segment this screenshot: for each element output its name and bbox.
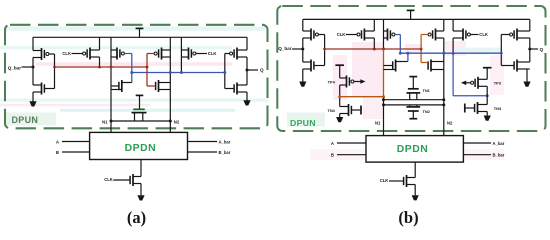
wire TP4/TN4 feed vertical (b) [339,85,341,117]
wire node N2 vertical (a) [169,37,171,132]
terminal T-bar above TP4 (b) [335,65,344,78]
ground under right inverter (b) [523,82,530,87]
svg-text:TN4: TN4 [327,108,335,113]
MOS capacitor TN1 (b) [406,89,420,100]
junction upper link right (b) [442,98,445,101]
arrow terminal at TP4 gate (b) [354,79,366,84]
VDD supply terminal (b) [407,10,415,19]
terminal T-bar below TN2 (b) [409,111,417,119]
junction N1-red (b) [382,48,385,51]
transistor N3 pass NMOS left (a) [111,80,132,92]
transistor P4 keeper PMOS right (a) [147,48,170,60]
terminal T-bar above TN1 (b) [409,77,417,88]
junction N2 link (a) [169,120,172,123]
svg-text:CLK: CLK [337,32,346,37]
wire input B (b) [337,154,366,156]
wire Q output stub (b) [530,48,538,50]
svg-text:DPDN: DPDN [397,144,428,155]
junction TN8 drain blue (b) [406,52,409,55]
wire input A (a) [62,141,90,143]
svg-text:CLK: CLK [104,177,113,182]
svg-text:CLK: CLK [62,51,71,56]
junction Q_bar (b) [301,48,304,51]
transistor TP6 keeper PMOS right (b) [421,29,444,41]
junction orange N1 (b) [382,95,385,98]
transistor TP5 keeper PMOS left (b) [384,29,401,41]
wire DPDN to foot transistor (a) [140,160,142,196]
transistor TN7 right inverter NMOS (b) [501,60,530,72]
VDD rail (a) [33,36,247,38]
transistor N7 clock foot NMOS (a) [130,174,141,186]
svg-text:N2: N2 [174,120,180,125]
junction lower link right (b) [442,103,445,106]
junction blue-keeper-left gate (a) [130,71,133,74]
subcircuit (b) DPUN dashed boundary box [277,6,545,131]
wire red gate vertical keeper-right (a) [146,54,148,87]
arrow terminal at TP3 gate (b) [461,81,471,86]
junction precharge-left red (b) [373,48,376,51]
junction blue keeper-left gate (b) [399,52,402,55]
svg-text:CLK: CLK [479,32,488,37]
svg-text:TP3: TP3 [494,81,502,86]
terminal bar at TN3 gate (b) [464,104,466,113]
transistor TP1 left inverter PMOS (b) [303,29,325,41]
transistor P3 keeper PMOS left (a) [111,48,132,60]
junction red left inverter gates (b) [323,48,326,51]
wire blue link to TP3/TN3 branch (b) [453,95,487,97]
junction Q (a) [246,69,249,72]
junction N2-blue (a) [169,71,172,74]
wire CLK foot gate lead (b) [389,180,404,182]
svg-text:TN2: TN2 [423,109,431,114]
svg-text:A: A [56,139,59,144]
wire input B (a) [62,151,90,153]
ground under TP3/TN3 branch (b) [484,116,491,121]
junction blue to right inverter gates (a) [223,71,226,74]
terminal T-bar above TP3 (b) [483,68,492,80]
svg-text:B: B [331,153,334,158]
wire input A (b) [337,142,366,144]
svg-text:(a): (a) [127,208,146,227]
wire right inverter feed vertical (b) [527,19,530,81]
svg-text:A_bar: A_bar [219,139,231,144]
wire red node R (a) [55,66,148,68]
transistor TN4 (b) [340,104,361,116]
DPDN block box (a) [90,132,188,159]
wire keeper-left gate blue vertical (b) [399,35,401,54]
ground under left inverter (b) [299,82,306,87]
junction N2-blue (b) [442,52,445,55]
wire blue gate vertical keeper-left (a) [131,54,133,83]
wire output A_bar (b) [463,142,491,144]
wire CLK gate lead (b left) [346,34,358,36]
svg-text:N2: N2 [447,121,453,126]
svg-text:(b): (b) [398,208,418,227]
MOS capacitor C1 (a) [132,109,147,121]
svg-text:Q_bar: Q_bar [278,46,291,51]
junction Q_bar (a) [32,66,35,69]
wire Q_bar feed vertical (a left inverter source/drain rail) [32,37,34,101]
transistor TP3 (b) [471,77,488,89]
transistor N4 pass NMOS right (a) [156,80,171,92]
capacitor terminal T-bar (a) [136,95,144,108]
svg-text:TP4: TP4 [328,79,336,84]
ground under TP4/TN4 branch (b) [336,117,343,122]
wire N1-N2 upper link (b) [384,99,444,101]
junction Q (b) [528,48,531,51]
wire N4 gate lead from red (a) [147,85,156,87]
wire orange link red-branch (b) [340,96,384,98]
svg-text:N1: N1 [102,120,108,125]
svg-text:TN3: TN3 [494,106,502,111]
svg-text:B: B [56,150,59,155]
MOS capacitor TN2 (b) [406,105,420,111]
transistor TP7 precharge PMOS CLK right (b) [453,29,478,41]
svg-text:B_bar: B_bar [219,150,231,155]
svg-text:DPUN: DPUN [290,118,316,128]
wire N1-N2 lower link (b) [384,104,444,106]
transistor TP2 precharge PMOS CLK left (b) [357,29,374,41]
wire TN8 drain blue vertical (b) [407,53,409,61]
wire right inverter feed vertical (a) [246,37,248,100]
wire precharge-left drain/source vertical (a) [99,37,101,67]
DPDN block box (b) [366,136,463,163]
transistor TN9 pass NMOS right (b) [428,60,444,72]
wire node N1 vertical upper (b) [383,19,385,49]
junction upper link left (b) [382,98,385,101]
ground under foot transistor (b) [412,195,419,200]
wire Q_bar stub (a) [22,66,34,68]
wire precharge-right vertical upper (b) [452,19,454,53]
transistor TN3 (b) [466,102,488,114]
wire node N2 vertical (b) [443,19,445,135]
transistor TN8 pass NMOS left (b) [384,60,408,72]
junction N1 link (a) [110,120,113,123]
svg-text:DPDN: DPDN [125,143,156,154]
transistor P6 right inverter PMOS (a) [225,48,247,60]
wire keeper-right gate orange vertical (b) [420,35,422,63]
junction red end keeper-right gate (b) [420,48,423,51]
svg-text:A: A [331,141,334,146]
svg-text:TN1: TN1 [423,88,431,93]
wire N1-N2 horizontal link (a) [111,120,170,122]
transistor TP4 (b) [340,76,354,88]
wire blue node S (b) [400,52,501,54]
svg-text:DPUN: DPUN [12,115,39,125]
wire output B_bar (b) [463,154,491,156]
subcircuit (a) DPUN dashed boundary box [5,25,268,129]
junction lower link left (b) [382,103,385,106]
svg-text:Q: Q [540,47,544,52]
junction red keeper-right (a) [146,66,149,69]
wire blue node S (a) [132,72,225,74]
junction precharge-right to blue (a) [180,71,183,74]
ground under right inverter (a) [243,100,250,105]
junction blue to branch feed (b) [486,94,489,97]
junction blue right inverter gates (b) [500,52,503,55]
wire precharge-left vertical (b) [373,19,375,49]
wire precharge-right vertical (a) [180,37,182,72]
svg-text:A_bar: A_bar [493,141,505,146]
wire node N1 vertical (a) [110,37,112,132]
wire node N1 vertical orange segment (b) [383,49,385,97]
transistor P5 precharge PMOS CLK right (a) [181,48,207,60]
terminal bar at TN4 gate (b) [360,106,362,115]
transistor TP8 right inverter PMOS (b) [501,29,530,41]
wire red node R (b) [325,48,422,50]
junction precharge-left to red node (a) [98,66,101,69]
svg-text:Q: Q [260,67,264,72]
junction red-gate left inverter (a) [53,66,56,69]
wire output B_bar (a) [188,151,218,153]
VDD rail (b) [303,18,530,20]
junction N1-red (a) [110,66,113,69]
junction orange branch (b) [338,95,341,98]
ground under left inverter (a) [29,101,36,106]
wire TP3/TN3 feed vertical (b) [486,86,488,115]
wire output A_bar (a) [188,141,218,143]
wire CLK foot gate lead (a) [113,179,130,181]
transistor N6 right inverter NMOS (a) [225,83,247,95]
svg-text:B_bar: B_bar [493,153,505,158]
transistor TN6 left inverter NMOS (b) [303,60,325,72]
wire Q_bar stub (b) [292,48,303,50]
wire right inverter gate vertical (b) [500,35,502,66]
wire CLK gate lead left (a) [72,53,84,55]
wire right inverter gate vertical (a) [224,54,226,89]
transistor P1 left inverter PMOS (a) [33,48,55,60]
wire node N1 vertical lower (b) [383,97,385,136]
svg-text:CLK: CLK [380,178,389,183]
svg-text:CLK: CLK [208,51,217,56]
svg-text:N1: N1 [375,121,381,126]
ground under foot transistor (a) [137,195,144,200]
svg-text:Q_bar: Q_bar [8,66,21,71]
wire left inverter gate vertical (a) [54,54,56,89]
wire left inverter gate vertical (b) [324,35,326,66]
wire precharge-right blue vertical lower (b) [452,53,454,96]
wire TN9 gate lead orange (b) [421,62,428,64]
junction precharge-right blue (b) [452,52,455,55]
wire Q output tap (a) [247,69,258,71]
transistor TN5 clock foot NMOS (b) [404,175,416,187]
transistor P2 precharge PMOS CLK left (a) [83,48,100,60]
wire DPDN to foot transistor (b) [414,162,416,195]
wire left inverter feed vertical (b) [302,19,304,81]
transistor N1 left inverter NMOS (a) [33,83,55,95]
VDD supply terminal (a) [136,28,144,37]
